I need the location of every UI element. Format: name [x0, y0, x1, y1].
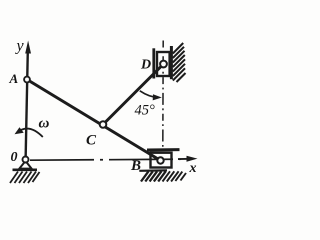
- svg-text:0: 0: [11, 150, 18, 165]
- svg-text:C: C: [86, 133, 97, 149]
- svg-text:x: x: [189, 161, 197, 176]
- svg-text:ω: ω: [39, 116, 50, 132]
- svg-text:B: B: [130, 158, 141, 174]
- svg-text:A: A: [9, 71, 19, 86]
- svg-text:y: y: [15, 38, 25, 55]
- svg-text:45°: 45°: [135, 103, 156, 119]
- svg-text:D: D: [140, 58, 151, 73]
